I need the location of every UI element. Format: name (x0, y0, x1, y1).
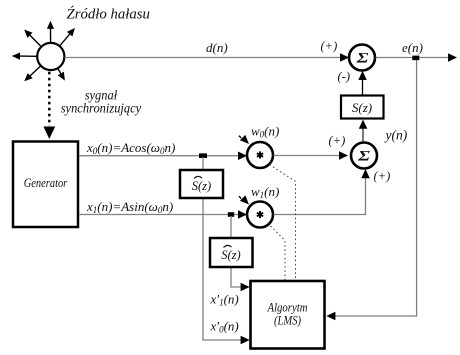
noise arrow left (12, 53, 37, 60)
svg-text:w1(n): w1(n) (251, 184, 279, 200)
svg-text:(+): (+) (329, 134, 346, 148)
wire x'1 vertical (231, 216, 250, 291)
node on x0 wire (199, 153, 207, 158)
filter Shat1 box (180, 170, 223, 198)
weight arrow into W0 (239, 135, 249, 144)
node on x1 wire (228, 212, 234, 217)
generator box (13, 142, 78, 228)
summer S2 (351, 143, 377, 169)
svg-text:(+): (+) (374, 169, 391, 183)
svg-text:synchronizujący: synchronizujący (61, 101, 142, 116)
dotted wire W1 to LMS (268, 223, 286, 280)
wire d(n) (65, 53, 350, 62)
svg-text:(LMS): (LMS) (274, 314, 301, 328)
wire x'0 vertical (203, 157, 250, 344)
svg-text:d(n): d(n) (206, 40, 228, 55)
noise arrow up-right (60, 28, 75, 46)
wire S2 to S(z) (359, 120, 368, 143)
noise arrow down-right (58, 69, 65, 81)
noise arrow down-left (24, 66, 40, 81)
summer S1 (349, 45, 375, 71)
svg-text:y(n): y(n) (384, 128, 408, 143)
noise source circle (37, 43, 64, 70)
noise arrow up (47, 21, 54, 43)
node on e(n) wire (412, 56, 419, 61)
svg-text:Generator: Generator (24, 176, 68, 190)
svg-text:Σ: Σ (357, 148, 371, 164)
filter S(z) box (341, 96, 384, 119)
svg-text:(+): (+) (321, 39, 338, 53)
noise arrow up-left (24, 30, 41, 47)
wire W1 to summer S2 (274, 169, 370, 215)
svg-text:S(z): S(z) (221, 248, 240, 262)
dotted wire W0 to LMS (270, 165, 296, 281)
svg-text:w0(n): w0(n) (251, 124, 279, 140)
wire e(n) (376, 53, 458, 62)
wire e(n) feedback to LMS (326, 60, 416, 320)
svg-text:e(n): e(n) (402, 40, 423, 55)
wire S(z) to summer S1 (358, 71, 367, 95)
weight arrow into W1 (239, 195, 249, 204)
svg-text:S(z): S(z) (352, 100, 372, 115)
svg-text:Źródło hałasu: Źródło hałasu (67, 6, 150, 23)
multiplier W0 (247, 142, 273, 168)
svg-text:Algorytm: Algorytm (267, 301, 308, 315)
wire x0 (79, 152, 247, 161)
filter Shat2 box (210, 238, 253, 267)
svg-text:Σ: Σ (355, 50, 369, 66)
svg-text:x'1(n): x'1(n) (210, 292, 239, 308)
svg-text:S(z): S(z) (192, 179, 211, 193)
svg-text:x'0(n): x'0(n) (210, 319, 239, 335)
wire W0 to summer S2 (274, 151, 349, 160)
multiplier W1 (247, 202, 273, 228)
wire x1 (79, 210, 247, 219)
svg-text:(-): (-) (338, 70, 351, 84)
LMS algorithm box (251, 281, 325, 349)
dotted sync wire (43, 72, 55, 139)
